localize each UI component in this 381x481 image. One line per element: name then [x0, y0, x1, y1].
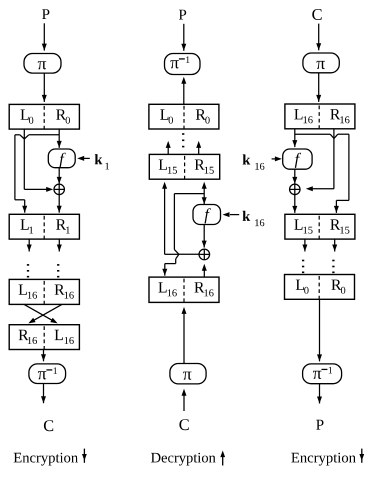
wire f output into xor right [294, 169, 296, 184]
ellipsis dots left half [27, 264, 29, 266]
permutation box pi (left column) [24, 54, 61, 74]
up arrow C to pi [183, 392, 185, 411]
wire R0 copy down-left into L1 [14, 135, 16, 200]
caption down arrow left [83, 449, 85, 463]
junction wire to f column [174, 193, 204, 195]
xor gate (right column) [290, 184, 301, 195]
stub arrow below R1 [58, 239, 60, 251]
wire xor output into R1 [58, 195, 60, 213]
register box L16 R16 (middle column) [149, 277, 219, 302]
wire f input tap [173, 194, 175, 250]
wire to pi inverse [43, 350, 45, 362]
key label k1 [95, 154, 103, 164]
wire R16 down to xor elbow [333, 129, 335, 189]
permutation box pi inverse (right column) [303, 364, 342, 384]
up arrow pi to L16R16 [183, 310, 185, 363]
key k1 arrow into f [82, 157, 90, 159]
wire L16 copy down-right into R15 [348, 134, 350, 200]
node P (plaintext, right column) [316, 420, 323, 430]
wire zigzag down into L16 [176, 254, 179, 259]
node C (ciphertext, left column) [44, 420, 53, 431]
node P (plaintext, left column) [42, 9, 49, 19]
wire R0 down into f [58, 129, 60, 148]
caption down arrow right [361, 449, 363, 463]
caption Encryption right [291, 453, 356, 466]
wire pi to L0R0 box [43, 73, 45, 102]
stub arrow below L1 [28, 239, 30, 251]
round function f (middle column) [193, 205, 221, 225]
node C (ciphertext, middle column) [179, 419, 188, 430]
wire P to pi inverse [183, 24, 185, 51]
ellipsis dots right column left half [302, 260, 304, 262]
register box R16 L16 swapped [9, 325, 79, 350]
wire L16 down into f [294, 129, 296, 147]
wire xor output up into L15 [164, 185, 166, 254]
funnel branch of R0 to left [15, 134, 20, 136]
round function f (left column) [48, 149, 75, 168]
register box L1 R1 [9, 214, 79, 239]
up stub arrow right of L15R15 [198, 144, 200, 154]
up arrow L0R0 to pi inverse [183, 80, 185, 104]
wire L0 down to xor elbow [23, 129, 25, 189]
wire xor output into L15 right [294, 195, 296, 213]
stub arrow below R15 right [334, 239, 336, 251]
wire pi inverse to P right [319, 384, 321, 404]
register box L16 R16 (right column) [285, 104, 355, 129]
key label k16 right [243, 154, 251, 164]
wire R16 up into xor [203, 267, 205, 277]
wire P to pi [43, 23, 45, 50]
key label k16 middle [243, 211, 251, 221]
stub arrow below L15 right [304, 239, 306, 251]
permutation box pi inverse (middle column) [165, 54, 201, 75]
wire funnel into xor left [179, 253, 199, 255]
register box L15 R15 (middle column) [149, 154, 219, 179]
wire L0 elbow arrow into xor [24, 188, 48, 190]
wire f output down into xor [203, 225, 205, 248]
key k16 arrow into middle f [230, 214, 239, 216]
round function f (right column) [283, 149, 312, 169]
wire pi inverse to C [43, 384, 45, 404]
ellipsis dots right half [57, 264, 59, 266]
swap cross wire L16 to right [24, 304, 56, 322]
wire C to pi [318, 24, 320, 51]
permutation box pi (middle column) [170, 364, 206, 384]
register box L0 R0 (right column) [285, 275, 355, 300]
node P (plaintext, middle column) [179, 10, 186, 20]
up stub arrow left of L15R15 [167, 144, 169, 154]
register box L16 R16 (left column) [9, 279, 79, 304]
swap cross wire R16 to left [30, 304, 62, 322]
wire L0R0 down to pi inverse right [319, 299, 321, 361]
ellipsis dots middle column [182, 133, 184, 135]
caption up arrow middle [222, 453, 224, 466]
register box L0 R0 (left column) [9, 104, 79, 129]
caption Decryption [151, 453, 216, 466]
xor gate (left column) [54, 184, 64, 195]
wire pi to L16R16 [318, 73, 320, 102]
node C (ciphertext, right column) [312, 9, 321, 20]
register box L0 R0 (middle column) [149, 104, 219, 129]
wire R15 up and f input down [203, 185, 205, 204]
permutation box pi inverse (left column) [29, 364, 66, 384]
funnel branch of L16 to right [295, 133, 330, 135]
register box L15 R15 (right column) [285, 214, 355, 239]
xor gate (middle column) [199, 249, 210, 260]
caption Encryption left [14, 453, 78, 466]
key k16 arrow into right f [272, 158, 276, 160]
permutation box pi (right column) [303, 53, 339, 73]
ellipsis dots right column right half [332, 260, 334, 262]
wire f output into xor [58, 168, 60, 184]
